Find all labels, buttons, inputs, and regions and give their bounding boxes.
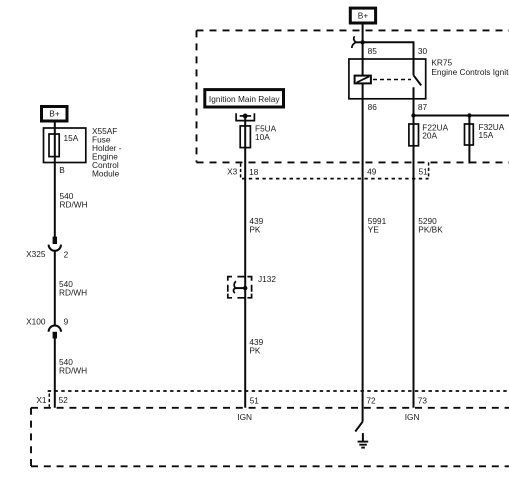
internal wire to ground, dogleg: [355, 422, 362, 432]
svg-text:Ignition Main Relay: Ignition Main Relay: [209, 94, 280, 104]
relay label KR75 Engine Controls Ignition Relay: [431, 58, 509, 77]
stub with curl (circuit continues): [352, 36, 363, 48]
svg-text:85: 85: [368, 46, 378, 56]
svg-text:RD/WH: RD/WH: [59, 288, 87, 298]
svg-text:Engine Controls Ignition Relay: Engine Controls Ignition Relay: [431, 67, 509, 77]
svg-text:15A: 15A: [479, 130, 494, 140]
engine control module dashed outline: [31, 408, 509, 467]
svg-text:51: 51: [419, 166, 429, 176]
svg-text:73: 73: [418, 395, 428, 405]
svg-text:PK/BK: PK/BK: [418, 225, 443, 235]
node at F22UA feed: [411, 113, 415, 117]
svg-text:IGN: IGN: [237, 412, 252, 422]
connector X1 row: [36, 391, 509, 407]
wire through fuse 15A: [54, 134, 56, 157]
fuse block bus tap: [236, 113, 254, 120]
connector X100 pin 9: [26, 317, 68, 339]
fuse 15A: [49, 133, 79, 157]
connector X3 row: [227, 162, 428, 178]
wire 540 RD/WH segment 1: [54, 157, 56, 237]
wire 540 RD/WH segment 3: [54, 339, 56, 408]
relay switch blade: [414, 42, 422, 85]
svg-text:RD/WH: RD/WH: [60, 200, 88, 210]
node at F32UA feed: [467, 113, 471, 117]
fuse F5UA 10A: [240, 116, 276, 148]
fuse holder box X55AF: [44, 128, 86, 163]
svg-text:X1: X1: [36, 395, 47, 405]
wire F32UA down: [468, 116, 470, 164]
svg-text:X3: X3: [227, 166, 238, 176]
wire pin 87 down: [413, 87, 415, 408]
svg-text:X100: X100: [26, 317, 46, 327]
svg-text:52: 52: [59, 395, 69, 405]
svg-text:PK: PK: [249, 225, 261, 235]
svg-text:J132: J132: [258, 274, 276, 284]
wire to F32UA and right: [414, 115, 509, 117]
svg-text:IGN: IGN: [405, 412, 420, 422]
svg-text:51: 51: [250, 395, 260, 405]
wire B+ to fuse holder: [54, 122, 56, 134]
svg-text:Module: Module: [92, 169, 120, 179]
wire 439 PK (F5UA to module): [244, 148, 246, 408]
wire 540 RD/WH segment 2: [54, 251, 56, 326]
svg-text:30: 30: [418, 46, 428, 56]
label box Ignition Main Relay: [205, 90, 284, 107]
fuse F22UA 20A: [409, 123, 449, 146]
wire label 5991 YE: [368, 216, 387, 235]
svg-text:20A: 20A: [422, 131, 437, 141]
svg-text:B+: B+: [358, 11, 369, 21]
svg-text:18: 18: [249, 167, 259, 177]
svg-text:B: B: [59, 165, 65, 175]
wire node to relay pin 30: [363, 42, 414, 59]
svg-text:2: 2: [64, 249, 69, 259]
svg-text:RD/WH: RD/WH: [59, 365, 87, 375]
wire label 5290 PK/BK: [418, 216, 443, 235]
ground symbol: [358, 433, 369, 448]
relay KR75 box: [349, 59, 426, 99]
power symbol B+ (left): [42, 107, 68, 122]
svg-text:YE: YE: [368, 225, 380, 235]
svg-text:72: 72: [366, 395, 376, 405]
svg-text:B+: B+: [49, 109, 60, 119]
svg-text:X325: X325: [26, 249, 46, 259]
connector X325 pin 2: [26, 237, 68, 260]
wire B+ down to node: [362, 25, 364, 60]
wire 439 PK label 2: [249, 337, 263, 356]
splice J132: [228, 274, 277, 298]
svg-text:87: 87: [418, 102, 428, 112]
svg-text:10A: 10A: [255, 132, 270, 142]
power symbol B+ (top right): [350, 8, 375, 23]
svg-text:15A: 15A: [64, 133, 79, 143]
label X55AF Fuse Holder - Engine Control Module: [92, 126, 122, 179]
wire relay coil to pin 86 down (5991 YE): [362, 84, 364, 422]
svg-text:9: 9: [64, 317, 69, 327]
underhood fuse block dashed outline: [197, 30, 509, 162]
relay coil: [355, 59, 371, 83]
svg-text:PK: PK: [249, 346, 261, 356]
relay coil-switch dashed link: [373, 79, 411, 81]
fuse F32UA 15A: [465, 122, 505, 145]
svg-text:86: 86: [368, 102, 378, 112]
node junction at relay feed: [360, 40, 364, 44]
svg-text:49: 49: [367, 166, 377, 176]
